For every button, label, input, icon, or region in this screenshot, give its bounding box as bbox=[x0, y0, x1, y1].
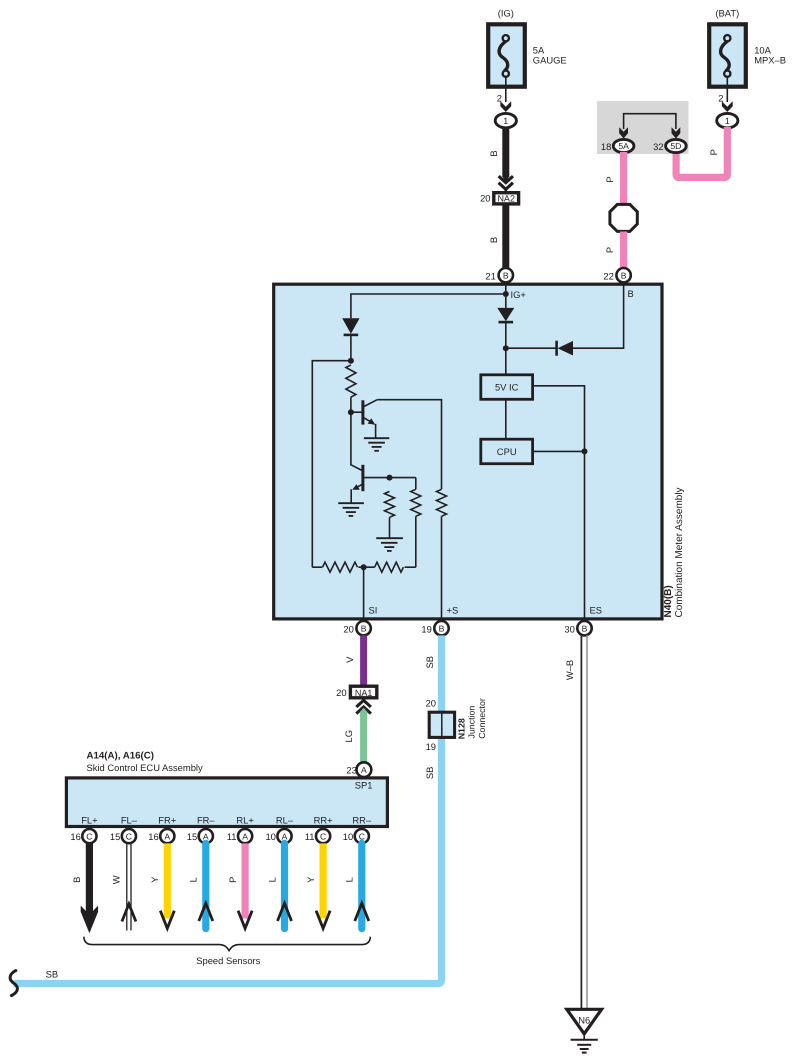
svg-text:16: 16 bbox=[148, 831, 158, 842]
svg-text:W–B: W–B bbox=[564, 660, 575, 680]
svg-text:22: 22 bbox=[603, 270, 613, 281]
wire R6 to R3 column bbox=[405, 566, 416, 568]
svg-text:A: A bbox=[242, 831, 248, 841]
wire L (blue) FR- from speed sensor bbox=[188, 843, 213, 928]
svg-text:LG: LG bbox=[343, 730, 354, 743]
svg-text:(BAT): (BAT) bbox=[715, 8, 739, 19]
wire Q1 collector to R4 bbox=[377, 400, 441, 490]
pin 16 (A) FR+ bbox=[148, 829, 174, 843]
svg-text:B: B bbox=[488, 237, 499, 243]
node IG+ bbox=[503, 289, 527, 300]
ground G2 bbox=[338, 503, 364, 516]
CPU U2 bbox=[481, 439, 533, 464]
svg-text:18: 18 bbox=[601, 141, 611, 152]
svg-text:B: B bbox=[621, 270, 627, 280]
arrow into 5A bbox=[619, 127, 628, 138]
svg-text:(IG): (IG) bbox=[498, 8, 514, 19]
svg-text:19: 19 bbox=[426, 741, 436, 752]
svg-text:30: 30 bbox=[564, 623, 574, 634]
svg-text:B: B bbox=[71, 877, 82, 883]
svg-text:C: C bbox=[86, 831, 92, 841]
svg-text:P: P bbox=[227, 877, 238, 883]
wire R4 to +S pin bbox=[441, 516, 443, 618]
connector NA1 pin 20 bbox=[336, 686, 377, 698]
wire P (pink) BAT pin1 to 5D bbox=[676, 127, 727, 177]
resistor R5 bbox=[323, 562, 358, 572]
wire 5V IC to CPU bbox=[505, 399, 507, 439]
svg-text:15: 15 bbox=[187, 831, 197, 842]
svg-text:A: A bbox=[164, 831, 170, 841]
wire left rail to R5 bbox=[312, 566, 322, 568]
wire R3 to bottom row bbox=[415, 516, 417, 567]
wire LG (green) NA1 to SP1 bbox=[343, 708, 367, 763]
svg-text:20: 20 bbox=[336, 687, 346, 698]
resistor R1 bbox=[346, 365, 356, 397]
svg-text:ES: ES bbox=[590, 605, 603, 616]
svg-text:RR–: RR– bbox=[352, 814, 372, 825]
transistor Q1 bbox=[351, 400, 377, 425]
resistor R6 bbox=[375, 562, 404, 572]
svg-text:N40(B): N40(B) bbox=[663, 585, 674, 617]
wire break symbol at left edge bbox=[10, 971, 17, 996]
svg-text:FR+: FR+ bbox=[158, 814, 176, 825]
noise filter (octagon) bbox=[610, 204, 637, 231]
svg-text:10: 10 bbox=[265, 831, 275, 842]
ground point N6 bbox=[567, 1009, 602, 1039]
svg-text:NA1: NA1 bbox=[355, 688, 373, 698]
pin 21 (B) of N40 bbox=[485, 268, 513, 282]
svg-text:L: L bbox=[344, 877, 355, 882]
wire W (white) FL- from speed sensor bbox=[111, 843, 136, 930]
svg-text:P: P bbox=[604, 176, 615, 182]
pin 20 (B) of N40 bbox=[343, 621, 370, 635]
ground symbol below N6 bbox=[571, 1040, 598, 1053]
resistor R4 bbox=[437, 489, 447, 516]
pin 15 (C) FL- bbox=[110, 829, 136, 843]
svg-text:B: B bbox=[503, 270, 509, 280]
5V IC U1 bbox=[481, 375, 533, 400]
svg-text:5A: 5A bbox=[618, 141, 629, 151]
combination meter assembly N40(B) box bbox=[274, 284, 662, 619]
svg-text:20: 20 bbox=[480, 193, 490, 204]
svg-text:B: B bbox=[582, 623, 588, 633]
pin 11 (A) RL+ bbox=[227, 829, 252, 843]
pin 16 (C) FL+ bbox=[70, 829, 96, 843]
pin 23 (A) of skid control ECU bbox=[346, 762, 371, 777]
wire B (black) fuse to NA2 bbox=[488, 127, 513, 191]
wire R2 to ground G3 bbox=[389, 517, 391, 538]
svg-text:2: 2 bbox=[497, 93, 502, 104]
diode D1 bbox=[342, 318, 359, 335]
svg-text:W: W bbox=[111, 875, 122, 884]
svg-text:Connector: Connector bbox=[477, 698, 487, 739]
svg-text:GAUGE: GAUGE bbox=[533, 54, 567, 65]
wire Y (yellow) RR+ to speed sensor bbox=[305, 843, 330, 928]
resistor R2 bbox=[385, 491, 395, 517]
svg-text:L: L bbox=[266, 877, 277, 882]
wire L (blue) RL- from speed sensor bbox=[266, 843, 291, 928]
svg-text:Junction: Junction bbox=[467, 706, 477, 739]
svg-text:A: A bbox=[361, 765, 367, 775]
wire SI node to SI pin bbox=[363, 567, 365, 618]
svg-text:A14(A), A16(C): A14(A), A16(C) bbox=[87, 751, 154, 762]
svg-text:10: 10 bbox=[343, 831, 353, 842]
node SI junction bbox=[361, 564, 367, 570]
chevron pair below NA1 bbox=[356, 700, 371, 713]
wire node A to left rail down to bottom resistor row bbox=[312, 361, 351, 568]
svg-text:SB: SB bbox=[424, 656, 435, 669]
svg-text:NA2: NA2 bbox=[497, 194, 515, 204]
svg-text:5D: 5D bbox=[670, 141, 681, 151]
svg-text:Combination Meter Assembly: Combination Meter Assembly bbox=[674, 487, 685, 617]
connector pin 1 (BAT feed) bbox=[717, 113, 738, 127]
wire Y (yellow) FR+ to speed sensor bbox=[149, 843, 174, 928]
wire node to D3 bbox=[506, 347, 556, 349]
wire pin 21 into box bbox=[505, 284, 507, 294]
svg-text:SB: SB bbox=[46, 968, 59, 979]
wire fuse BAT pin 2 bbox=[718, 76, 732, 113]
skid control ECU assembly box A14(A) A16(C) bbox=[66, 751, 387, 827]
svg-text:FL+: FL+ bbox=[81, 814, 98, 825]
wire D3 to pin 22 bbox=[573, 285, 624, 349]
wire P (pink) noise filter to pin 22 bbox=[604, 232, 624, 269]
svg-text:SB: SB bbox=[424, 767, 435, 780]
pin 10 (C) RR- bbox=[343, 829, 369, 843]
svg-text:1: 1 bbox=[725, 116, 730, 126]
diode D2 bbox=[497, 308, 514, 322]
wire B (black) FL+ to speed sensor bbox=[71, 843, 98, 933]
node Q2 base bbox=[387, 475, 393, 481]
wire IG+ to D1 bbox=[351, 294, 506, 318]
wire Q2 base to resistors bbox=[364, 477, 416, 479]
wire Q1 emitter to ground bbox=[375, 424, 377, 438]
svg-text:+S: +S bbox=[447, 605, 459, 616]
wire W-B (double line) pin 30 to N6 bbox=[564, 635, 587, 1009]
svg-text:A: A bbox=[203, 831, 209, 841]
connector pin 1 (IG feed) bbox=[495, 113, 516, 127]
svg-text:IG+: IG+ bbox=[511, 289, 527, 300]
svg-text:B: B bbox=[439, 623, 445, 633]
svg-text:32: 32 bbox=[653, 141, 663, 152]
svg-text:B: B bbox=[628, 288, 634, 299]
svg-text:20: 20 bbox=[426, 698, 436, 709]
fuse F2 (BAT) 10A MPX-B bbox=[709, 8, 786, 87]
arrow into 5D bbox=[672, 127, 681, 138]
node below D2 bbox=[503, 345, 509, 351]
svg-text:16: 16 bbox=[70, 831, 80, 842]
wire Q2 emitter to ground bbox=[350, 489, 352, 503]
svg-text:C: C bbox=[320, 831, 326, 841]
wire L (blue) RR- from speed sensor bbox=[344, 843, 369, 928]
pin 10 (A) RL- bbox=[265, 829, 291, 843]
svg-text:Speed Sensors: Speed Sensors bbox=[196, 955, 260, 966]
svg-text:RR+: RR+ bbox=[314, 814, 334, 825]
pin 11 (C) RR+ bbox=[305, 829, 330, 843]
node ES rail bbox=[582, 448, 588, 454]
svg-text:N6: N6 bbox=[578, 1014, 590, 1025]
svg-text:MPX–B: MPX–B bbox=[754, 54, 786, 65]
wire 5V IC right to ES pin bbox=[533, 386, 585, 619]
svg-text:P: P bbox=[708, 149, 719, 155]
wire P (pink) 5A to noise filter bbox=[604, 152, 624, 205]
wire fuse IG pin 2 bbox=[497, 76, 511, 113]
wire R5 to R6 bbox=[358, 566, 374, 568]
wire R1 to Q1 base node bbox=[350, 397, 352, 412]
svg-text:FR–: FR– bbox=[197, 814, 215, 825]
connector 5D pin 32 bbox=[653, 139, 686, 152]
wire V (purple) pin 20 to NA1 bbox=[344, 635, 364, 685]
ground G1 bbox=[364, 438, 389, 451]
svg-text:SI: SI bbox=[369, 605, 378, 616]
fuse F1 (IG) 5A GAUGE bbox=[488, 8, 566, 87]
svg-text:2: 2 bbox=[718, 93, 723, 104]
svg-text:L: L bbox=[188, 877, 199, 882]
pin 30 (B) of N40 bbox=[564, 621, 591, 635]
connector 5A pin 18 bbox=[601, 139, 634, 152]
brace speed sensors bbox=[84, 937, 371, 951]
svg-text:Y: Y bbox=[149, 876, 160, 883]
wire SB (light blue) pin 19 to bottom left bbox=[14, 635, 442, 983]
svg-text:RL–: RL– bbox=[276, 814, 294, 825]
svg-text:11: 11 bbox=[227, 831, 237, 842]
svg-text:5V IC: 5V IC bbox=[495, 382, 519, 393]
wire D1 to node A bbox=[350, 335, 352, 361]
wire Q1 base node to Q2 collector bbox=[351, 412, 362, 470]
svg-text:19: 19 bbox=[421, 623, 431, 634]
svg-text:Y: Y bbox=[305, 876, 316, 883]
svg-text:B: B bbox=[361, 623, 367, 633]
wire D2 to 5V IC bbox=[505, 322, 507, 374]
diode D3 bbox=[557, 341, 573, 356]
svg-text:C: C bbox=[359, 831, 365, 841]
svg-text:FL–: FL– bbox=[121, 814, 138, 825]
wire Q2 base branch down to R3 bbox=[415, 478, 417, 490]
node Q1 base bbox=[348, 409, 354, 415]
svg-text:N128: N128 bbox=[457, 718, 467, 739]
pin 19 (B) of N40 bbox=[421, 621, 448, 635]
wire IG+ to D2 bbox=[505, 294, 507, 308]
connector NA2 pin 20 bbox=[480, 193, 519, 204]
svg-text:V: V bbox=[344, 656, 355, 663]
pin 22 (B) of N40 bbox=[603, 268, 630, 282]
svg-text:1: 1 bbox=[503, 116, 508, 126]
svg-text:CPU: CPU bbox=[497, 446, 517, 457]
svg-text:20: 20 bbox=[343, 623, 353, 634]
junction connector N128 bbox=[426, 698, 487, 753]
svg-text:C: C bbox=[126, 831, 132, 841]
svg-text:SP1: SP1 bbox=[355, 779, 373, 790]
pin labels FL+ FL- FR+ FR- RL+ RL- RR+ RR- bbox=[81, 814, 372, 825]
ground G3 bbox=[376, 538, 403, 551]
wire P (pink) RL+ to speed sensor bbox=[227, 843, 252, 928]
svg-text:15: 15 bbox=[110, 831, 120, 842]
svg-text:P: P bbox=[604, 247, 615, 253]
svg-text:A: A bbox=[282, 831, 288, 841]
node A bbox=[348, 358, 354, 364]
svg-text:21: 21 bbox=[485, 270, 495, 281]
transistor Q2 bbox=[352, 465, 364, 491]
pin 15 (A) FR- bbox=[187, 829, 213, 843]
wire link 5A to 5D inside junction block bbox=[624, 114, 676, 129]
grey junction block background bbox=[597, 101, 689, 154]
wire CPU right to ES rail bbox=[533, 450, 585, 452]
svg-text:B: B bbox=[488, 150, 499, 156]
svg-text:11: 11 bbox=[305, 831, 315, 842]
svg-text:RL+: RL+ bbox=[236, 814, 254, 825]
wire B (black) NA2 to pin 21 bbox=[488, 204, 506, 268]
resistor R3 bbox=[411, 489, 421, 516]
svg-text:Skid Control ECU Assembly: Skid Control ECU Assembly bbox=[87, 762, 203, 773]
